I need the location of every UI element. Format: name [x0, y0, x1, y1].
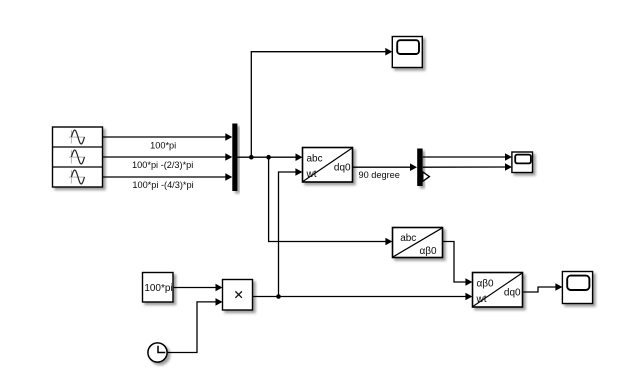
- multiply symbol: [235, 291, 242, 297]
- svg-text:90 degree: 90 degree: [359, 170, 400, 180]
- demux (black bar with unconnected third port): [417, 149, 429, 187]
- mux (black bar): [232, 124, 237, 192]
- junction node product output branch: [276, 294, 281, 299]
- svg-text:wt: wt: [476, 294, 487, 305]
- wire alphabeta0-dq0 output to bottom-right scope: [523, 283, 563, 292]
- wire demux out2 to small scope in2: [423, 163, 512, 171]
- svg-text:100*pi -(4/3)*pi: 100*pi -(4/3)*pi: [132, 180, 193, 190]
- wire sine2 to mux: [103, 153, 233, 161]
- wire junction down to abc-alphabeta0 input: [269, 157, 393, 245]
- sine wave source group (3 stacked sine blocks): [53, 127, 103, 187]
- svg-text:abc: abc: [400, 233, 416, 244]
- svg-text:100*pi -(2/3)*pi: 100*pi -(2/3)*pi: [132, 160, 193, 170]
- scope2 (bottom right): [562, 272, 592, 304]
- svg-text:αβ0: αβ0: [477, 278, 495, 289]
- abc to alphabeta0 transform block: [393, 228, 443, 258]
- wire clock to product in2: [168, 298, 223, 352]
- wire mux output to abc-dq0 abc input: [237, 153, 302, 161]
- wire abc-alphabeta0 output to alphabeta0-dq0 input: [443, 242, 473, 286]
- unconnected port open arrow: [423, 172, 430, 181]
- wire product output to alphabeta0-dq0 wt input: [253, 293, 473, 301]
- svg-text:wt: wt: [306, 169, 317, 180]
- wire sine1 to mux: [103, 133, 233, 141]
- alphabeta0 to dq0 transform block: [473, 273, 523, 308]
- sine icon 3: [69, 170, 85, 184]
- wire abc-dq0 output to demux: [353, 163, 417, 171]
- clock hands: [158, 346, 165, 353]
- svg-text:100*pi: 100*pi: [144, 283, 172, 294]
- svg-text:abc: abc: [307, 153, 323, 164]
- wire junction up to abc-dq0 wt input: [279, 168, 303, 296]
- junction node to abc-alphabeta0: [266, 155, 271, 160]
- svg-text:dq0: dq0: [334, 163, 351, 174]
- product block: [223, 280, 253, 311]
- constant block 100*pi: [143, 273, 174, 303]
- wire constant to product in1: [173, 284, 222, 292]
- svg-text:100*pi: 100*pi: [150, 140, 176, 150]
- wire junction up to top scope: [251, 48, 392, 157]
- svg-text:dq0: dq0: [504, 288, 521, 299]
- sine icon 2: [69, 150, 85, 164]
- abc to dq0 transform block U1: [303, 148, 353, 183]
- svg-text:αβ0: αβ0: [419, 246, 437, 257]
- scope1 (small, two inputs): [512, 152, 533, 173]
- wire demux out1 to small scope in1: [423, 153, 512, 161]
- wire sine3 to mux: [103, 173, 233, 181]
- sine icon 1: [69, 130, 85, 144]
- scope (top): [392, 37, 422, 68]
- clock block: [148, 343, 167, 362]
- junction node to top scope: [249, 155, 254, 160]
